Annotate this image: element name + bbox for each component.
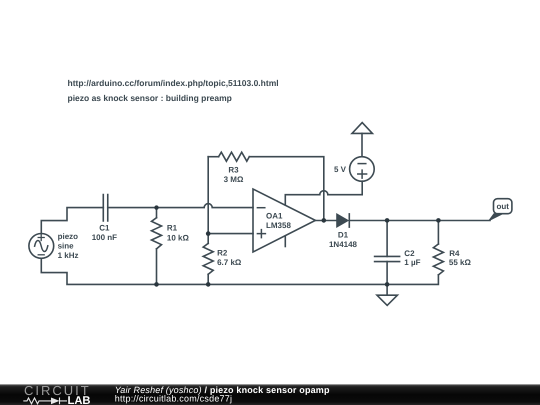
voltage source V1 (piezo sine) [29, 234, 54, 259]
V2 minus sign [358, 163, 366, 165]
junction node: output / R3 [322, 218, 327, 223]
junction node: R4 top [436, 218, 441, 223]
wire: R3 feedback left vertical (crosses under hop) [207, 157, 209, 234]
svg-text:R1: R1 [167, 224, 178, 233]
V2 plus sign [358, 170, 367, 178]
wire: C2 bottom lead [386, 262, 388, 285]
V1 minus sign [38, 254, 44, 256]
CircuitLab logo schematic line with resistor and diode [23, 398, 67, 405]
resistor R1 [152, 218, 162, 249]
wire: source top to C1 (top signal rail) [41, 208, 103, 234]
capacitor C1 plates [103, 195, 107, 221]
svg-text:100 nF: 100 nF [92, 233, 117, 242]
capacitor C2 plates [375, 256, 400, 261]
out flag box [494, 199, 512, 214]
wire: ground stub [386, 284, 388, 295]
svg-text:R3: R3 [228, 165, 239, 174]
wire: R3 right lead and right vertical down to output node [249, 157, 323, 221]
svg-text:1 kHz: 1 kHz [58, 251, 79, 260]
CircuitLab logo diode triangle [51, 398, 60, 405]
label V1: piezo sine 1 kHz [58, 165, 510, 267]
junction node: R1 top [154, 205, 158, 209]
svg-text:piezo: piezo [58, 232, 79, 241]
wire: R3 left lead [208, 156, 218, 158]
svg-text:5 V: 5 V [334, 165, 347, 174]
svg-text:10 kΩ: 10 kΩ [167, 233, 190, 242]
wire: R1 bottom lead [156, 249, 158, 285]
diode D1 cathode bar [348, 214, 350, 227]
VCC arrow symbol [352, 123, 372, 134]
out flag pointer tail [489, 214, 503, 221]
voltage source V2 5V circle [350, 157, 375, 182]
svg-text:1 µF: 1 µF [404, 258, 420, 267]
junction node: plus input / R2 / feedback [206, 231, 211, 236]
V1 sine symbol [35, 240, 48, 251]
svg-text:R4: R4 [449, 249, 460, 258]
resistor R4 [433, 244, 443, 275]
svg-text:LAB: LAB [68, 395, 91, 405]
svg-text:http://circuitlab.com/csde77j: http://circuitlab.com/csde77j [115, 394, 232, 404]
resistor R2 [203, 243, 213, 274]
wire: op-amp output to diode [315, 220, 336, 222]
wire: R2 top lead [207, 234, 209, 244]
wire: C1 to R1 node to hop to op-amp minus input [108, 204, 253, 208]
diode D1 arrow [337, 214, 349, 227]
svg-text:1N4148: 1N4148 [329, 240, 358, 249]
svg-text:LM358: LM358 [266, 221, 291, 230]
wire: R4 top lead [437, 220, 439, 244]
op-amp plus input symbol [257, 230, 265, 238]
svg-text:C2: C2 [404, 249, 415, 258]
footer bar [0, 384, 540, 405]
op-amp minus input symbol [257, 207, 264, 209]
wire: V2 top to VCC antenna [361, 133, 363, 156]
svg-text:C1: C1 [99, 223, 110, 232]
wire: C2 top lead [386, 220, 388, 256]
svg-text:out: out [496, 202, 509, 211]
wire: R2 bottom lead [207, 274, 209, 284]
op-amp V+ power pin and rail to 5V source (hop over R3 vertical) [285, 181, 362, 205]
wire: plus input from node to op-amp [208, 233, 253, 235]
svg-text:http://arduino.cc/forum/index.: http://arduino.cc/forum/index.php/topic,… [68, 78, 279, 88]
op-amp V- power pin stub [284, 237, 286, 247]
svg-text:6.7 kΩ: 6.7 kΩ [217, 258, 242, 267]
svg-text:piezo as knock sensor : buildi: piezo as knock sensor : building preamp [68, 93, 232, 103]
ground symbol [377, 295, 397, 305]
junction node: C2 bottom / ground [385, 282, 390, 287]
svg-text:3 MΩ: 3 MΩ [224, 175, 244, 184]
svg-text:55 kΩ: 55 kΩ [449, 258, 472, 267]
wire: diode to out node rail [349, 220, 490, 222]
junction node: R2 bottom [206, 282, 211, 287]
resistor R3 [219, 152, 250, 161]
junction node: C2 top [385, 218, 390, 223]
svg-text:R2: R2 [217, 248, 228, 257]
V1 plus sign [38, 235, 44, 241]
wire: R1 top lead [156, 208, 158, 218]
op-amp OA1 triangle [253, 189, 315, 252]
junction node: R1 bottom [154, 282, 159, 287]
wire: source bottom to bottom rail, rail to R4 bottom [41, 258, 438, 284]
svg-text:sine: sine [58, 241, 75, 250]
svg-text:D1: D1 [338, 231, 349, 240]
svg-text:OA1: OA1 [266, 211, 283, 220]
